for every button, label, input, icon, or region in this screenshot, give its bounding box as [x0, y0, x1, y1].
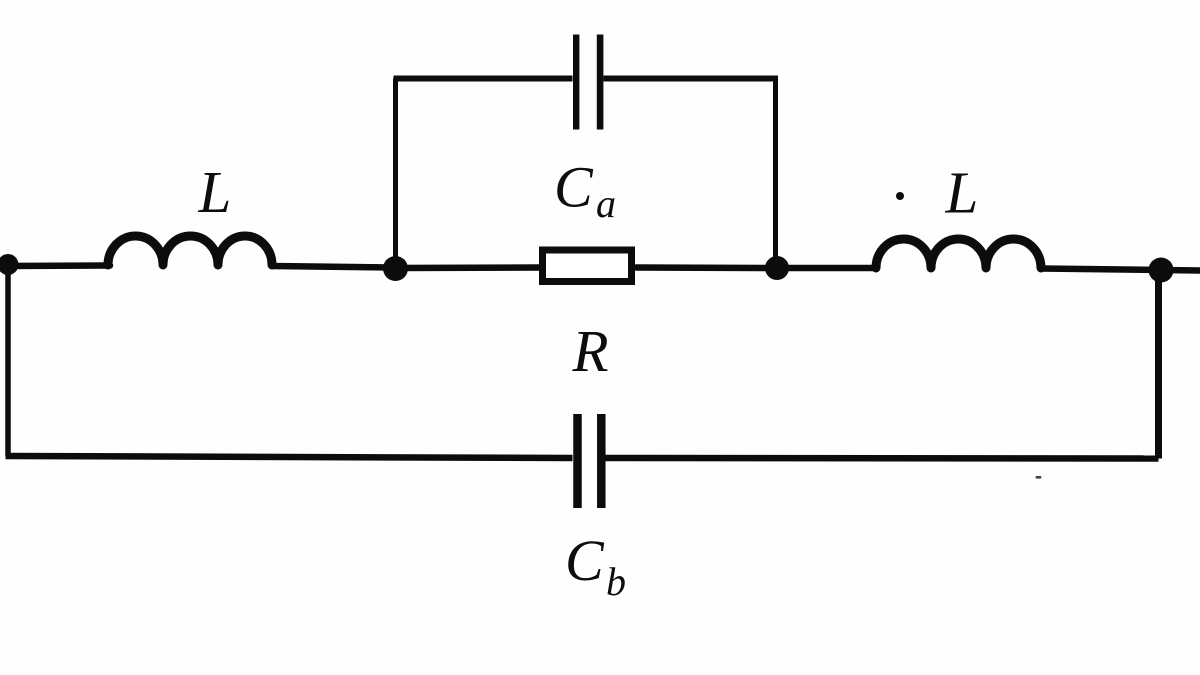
svg-text:b: b [606, 559, 626, 604]
svg-text:C: C [565, 528, 605, 593]
svg-text:L: L [198, 159, 232, 225]
svg-text:R: R [572, 318, 609, 384]
svg-text:L: L [945, 160, 979, 226]
svg-text:C: C [554, 155, 594, 220]
svg-text:a: a [596, 181, 616, 226]
